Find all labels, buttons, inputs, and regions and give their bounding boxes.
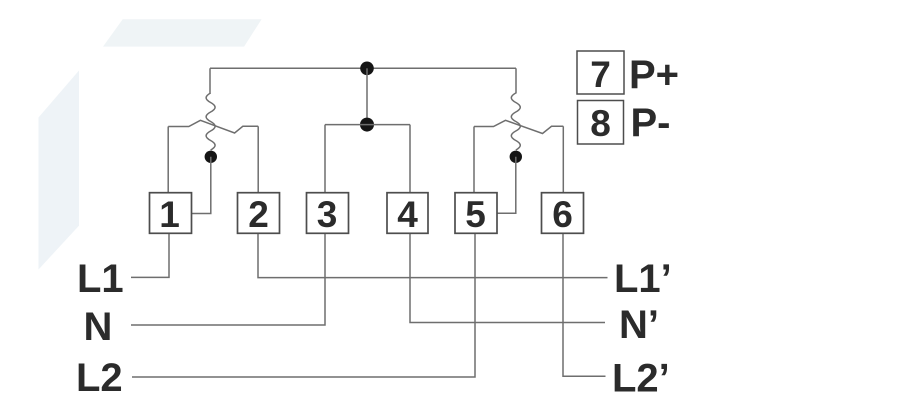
svg-text:1: 1 xyxy=(159,194,180,235)
terminal box 1 xyxy=(150,193,192,234)
junction dot right coil xyxy=(510,151,522,163)
svg-text:L2’: L2’ xyxy=(612,357,670,401)
terminal box 2 xyxy=(238,193,280,234)
wire drop to terminal 4 xyxy=(409,125,411,193)
svg-text:8: 8 xyxy=(590,103,611,144)
terminal box 6 xyxy=(542,193,584,234)
wire terminal 4 to N' xyxy=(410,233,605,322)
wire terminal 3 to N xyxy=(131,233,325,325)
svg-text:2: 2 xyxy=(248,194,269,235)
wire right dot to terminal 5 side xyxy=(497,157,516,214)
coil wavy wire left xyxy=(206,93,215,150)
wire right side of left switch to terminal 2 xyxy=(257,126,259,192)
wire right switch to terminal 5 xyxy=(473,127,475,193)
wire mid bus between terminals 3 and 4 xyxy=(325,124,410,126)
junction dot mid bus xyxy=(360,118,374,132)
wire right side of right switch to terminal 6 xyxy=(562,126,564,192)
wire drop to terminal 3 xyxy=(324,125,326,193)
svg-text:P+: P+ xyxy=(629,53,679,97)
svg-text:6: 6 xyxy=(552,194,573,235)
svg-text:L1’: L1’ xyxy=(614,257,672,301)
svg-text:P-: P- xyxy=(631,101,671,145)
terminal box 5 xyxy=(455,193,497,234)
wire terminal 5 to L2 xyxy=(132,233,475,377)
svg-text:L2: L2 xyxy=(76,356,123,400)
svg-text:L1: L1 xyxy=(77,257,124,301)
wire top bus xyxy=(210,67,516,69)
terminal box 4 xyxy=(387,193,428,234)
svg-text:5: 5 xyxy=(465,194,486,235)
junction dot left coil xyxy=(205,151,217,163)
link bridge right switch xyxy=(474,120,563,133)
wire center drop from top bus xyxy=(366,68,368,124)
svg-text:N: N xyxy=(84,305,113,349)
terminal box 7 xyxy=(577,51,624,94)
wire left dot to terminal 1 side xyxy=(192,157,211,214)
wire terminal 2 to L1' xyxy=(258,233,608,277)
junction dot top bus xyxy=(360,62,374,76)
wire terminal 6 to L2' xyxy=(563,233,606,376)
wire top bus right drop xyxy=(515,68,517,93)
wire terminal 1 to L1 xyxy=(131,233,169,277)
svg-text:N’: N’ xyxy=(619,303,659,347)
coil wavy wire right xyxy=(511,93,520,150)
terminal box 3 xyxy=(307,193,349,234)
terminal box 8 xyxy=(578,101,624,145)
svg-text:3: 3 xyxy=(317,194,338,235)
link bridge left switch xyxy=(168,120,258,133)
svg-text:7: 7 xyxy=(590,54,611,95)
svg-text:4: 4 xyxy=(397,194,418,235)
wire top bus left drop xyxy=(209,68,211,93)
wire left switch to terminal 1 xyxy=(167,127,169,193)
